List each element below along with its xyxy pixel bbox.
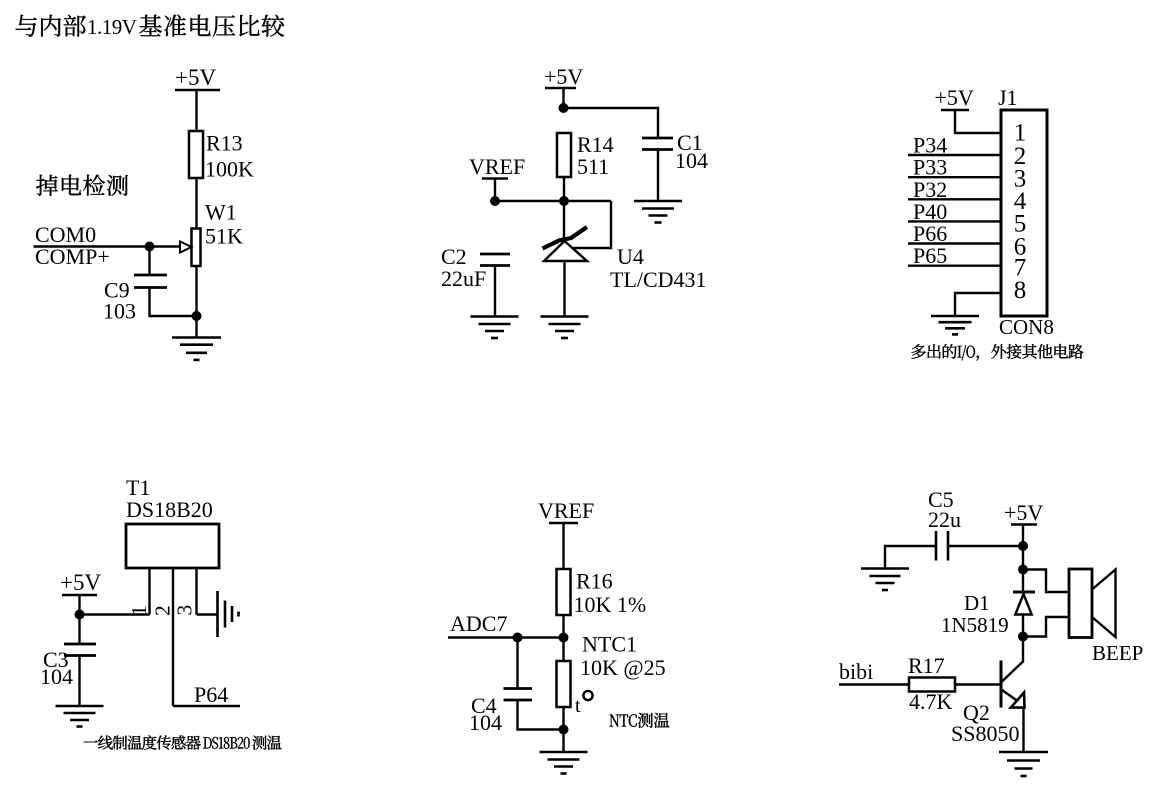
wire <box>908 242 1001 244</box>
wire <box>148 247 150 276</box>
svg-text:+5V: +5V <box>544 64 583 89</box>
pin 2 <box>172 568 174 706</box>
junction <box>1018 565 1028 575</box>
capacitor C4 104 <box>504 687 533 690</box>
wire <box>494 266 496 317</box>
ground <box>56 705 104 708</box>
ground <box>471 315 519 318</box>
wire <box>195 178 197 229</box>
wire <box>563 261 565 317</box>
junction <box>145 242 155 252</box>
wire <box>908 176 1001 178</box>
wire <box>78 656 80 707</box>
svg-text:103: 103 <box>103 299 136 324</box>
junction <box>1018 541 1028 551</box>
svg-text:R16: R16 <box>576 569 613 594</box>
wire <box>955 683 1002 685</box>
wire <box>195 90 197 131</box>
wire <box>78 595 80 644</box>
wire <box>562 615 564 661</box>
svg-text:511: 511 <box>577 154 609 179</box>
svg-text:BEEP: BEEP <box>1092 641 1143 665</box>
junction <box>559 196 569 206</box>
svg-text:100K: 100K <box>205 157 254 182</box>
svg-text:1.19V: 1.19V <box>87 15 137 39</box>
capacitor C1 104 <box>642 137 673 140</box>
buzzer BEEP <box>1069 569 1092 638</box>
svg-text:2: 2 <box>151 605 175 616</box>
pin 1 <box>148 568 150 615</box>
svg-text:+5V: +5V <box>60 570 101 595</box>
wire <box>955 110 1001 133</box>
svg-text:TL/CD431: TL/CD431 <box>610 267 707 292</box>
wire <box>948 545 1023 547</box>
wire <box>908 154 1001 156</box>
junction <box>559 103 569 113</box>
capacitor C3 104 <box>64 643 96 646</box>
wire <box>1022 525 1024 593</box>
svg-text:D1: D1 <box>964 591 990 615</box>
wire <box>657 150 659 202</box>
ground <box>861 567 909 570</box>
svg-text:3: 3 <box>173 605 197 616</box>
resistor R17 4.7K <box>909 678 955 692</box>
wire <box>34 245 180 247</box>
wire <box>80 613 150 615</box>
wire <box>1022 707 1024 753</box>
wire <box>518 700 564 730</box>
resistor R16 10K 1% <box>557 569 571 615</box>
wire (to buzzer top) <box>1023 570 1069 593</box>
wire <box>563 201 565 241</box>
svg-text:1N5819: 1N5819 <box>941 613 1009 637</box>
ground <box>541 315 589 318</box>
shunt reference U4 TL/CD431 <box>543 227 588 249</box>
svg-text:104: 104 <box>675 148 708 173</box>
ground <box>540 751 588 754</box>
svg-text:CON8: CON8 <box>999 315 1054 339</box>
svg-text:104: 104 <box>40 664 73 689</box>
svg-text:bibi: bibi <box>839 659 873 684</box>
junction <box>559 725 569 735</box>
svg-text:R13: R13 <box>206 131 243 156</box>
ground <box>172 336 221 339</box>
svg-text:P64: P64 <box>194 682 228 707</box>
caption 一线制温度传感器DS18B20测温 <box>84 735 282 750</box>
svg-text:VREF: VREF <box>538 498 594 523</box>
title 与内部 1.19V 基准电压比较 <box>16 15 86 37</box>
svg-text:51K: 51K <box>205 224 243 249</box>
resistor R13 100K <box>189 131 203 178</box>
ground <box>931 315 979 318</box>
svg-text:SS8050: SS8050 <box>951 721 1019 746</box>
svg-text:COMP+: COMP+ <box>35 244 110 269</box>
pin 3 <box>195 568 197 615</box>
svg-text:t: t <box>575 695 581 717</box>
wire <box>908 220 1001 222</box>
wire <box>908 198 1001 200</box>
junction <box>192 311 202 321</box>
ground <box>634 200 682 203</box>
potentiometer W1 51K <box>192 229 201 267</box>
junction <box>1018 632 1028 642</box>
caption NTC测温 <box>610 713 670 728</box>
svg-text:R17: R17 <box>908 653 945 678</box>
svg-text:22uF: 22uF <box>441 266 486 291</box>
svg-text:J1: J1 <box>998 85 1018 110</box>
svg-text:DS18B20: DS18B20 <box>126 497 213 522</box>
svg-text:10K 1%: 10K 1% <box>574 592 647 617</box>
svg-text:ADC7: ADC7 <box>450 611 507 636</box>
junction <box>559 633 569 643</box>
svg-text:NTC1: NTC1 <box>582 632 637 657</box>
wire <box>564 108 659 138</box>
capacitor C9 103 <box>134 274 167 277</box>
transistor Q2 SS8050 <box>1000 661 1003 708</box>
junction <box>490 196 500 206</box>
svg-text:U4: U4 <box>617 244 644 269</box>
wire <box>150 288 197 317</box>
svg-text:10K @25: 10K @25 <box>580 655 666 680</box>
svg-text:W1: W1 <box>205 200 237 225</box>
svg-text:104: 104 <box>469 710 502 735</box>
ground (rotated) <box>216 591 219 637</box>
wire <box>1022 615 1024 663</box>
wire <box>195 266 197 337</box>
wire (pin2 to P64) <box>173 705 240 707</box>
capacitor C2 22uF <box>480 253 510 256</box>
junction <box>75 610 85 620</box>
wire (to buzzer bottom) <box>1023 617 1069 637</box>
wire (pin3 to ground) <box>197 613 218 615</box>
svg-text:8: 8 <box>1014 277 1027 304</box>
svg-text:22u: 22u <box>928 507 961 532</box>
wire <box>448 636 564 638</box>
wire (pin8 to ground) <box>955 293 1001 315</box>
wire <box>562 88 564 108</box>
label 掉电检测 <box>36 175 128 196</box>
svg-text:4.7K: 4.7K <box>909 689 953 714</box>
wire <box>495 200 611 202</box>
wire <box>885 546 936 569</box>
svg-text:+5V: +5V <box>175 65 216 90</box>
svg-text:+5V: +5V <box>935 85 974 110</box>
wire <box>839 683 909 685</box>
wire <box>908 265 1001 267</box>
wire <box>562 707 564 752</box>
resistor R14 511 <box>557 133 571 177</box>
wire <box>494 179 496 202</box>
svg-text:VREF: VREF <box>469 154 525 179</box>
junction <box>513 633 523 643</box>
wire <box>516 638 518 689</box>
ground <box>999 751 1048 754</box>
svg-text:+5V: +5V <box>1004 500 1043 525</box>
svg-text:P65: P65 <box>913 243 947 268</box>
wire <box>562 523 564 569</box>
caption 多出的I/O，外接其他电路 <box>912 344 1084 361</box>
wire <box>563 177 565 201</box>
wire (ref feedback) <box>570 201 611 248</box>
